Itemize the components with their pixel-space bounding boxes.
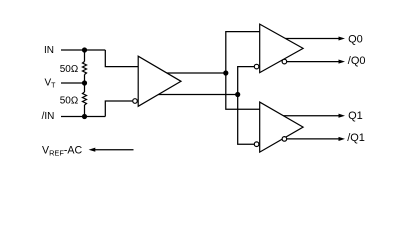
svg-text:50Ω: 50Ω	[60, 64, 79, 75]
arrowhead /Q0	[339, 60, 346, 64]
wire /IN to comparator inverting input	[105, 101, 132, 117]
resistor R2 50ohm zigzag	[83, 92, 87, 105]
wire left rail top segment	[84, 50, 86, 62]
inversion bubble U2 input	[254, 64, 259, 69]
junction dot VT node	[82, 80, 87, 85]
wire Q0 output	[270, 38, 339, 40]
buffer U3 triangle	[260, 102, 303, 152]
wire VT horizontal	[61, 82, 85, 84]
inversion bubble U3 input	[254, 142, 259, 147]
wire rail between R1 and VT	[84, 75, 86, 93]
arrowhead VREF-AC (points left)	[89, 148, 96, 152]
svg-text:/IN: /IN	[42, 111, 55, 122]
junction dot comparator true output	[223, 70, 228, 75]
wire comparator output complement	[150, 94, 238, 96]
arrowhead Q1	[339, 114, 346, 118]
wire rail A to buffer inputs	[226, 32, 261, 110]
inversion bubble U2 output	[282, 59, 287, 64]
wire VREF-AC arrow line	[95, 149, 134, 151]
junction dot /IN node	[82, 114, 87, 119]
junction dot comparator complement output	[235, 92, 240, 97]
wire /IN horizontal	[61, 116, 105, 118]
svg-text:Q1: Q1	[348, 110, 363, 122]
wire /Q0 output	[284, 61, 338, 63]
svg-text:50Ω: 50Ω	[60, 95, 79, 106]
wire IN horizontal	[61, 49, 105, 51]
inversion bubble U3 output	[282, 137, 287, 142]
buffer U2 triangle	[260, 24, 303, 73]
resistor R1 50ohm zigzag	[83, 62, 87, 75]
svg-text:Q0: Q0	[348, 34, 363, 46]
inversion bubble U1 input	[133, 99, 138, 104]
wire /Q1 output	[284, 138, 338, 140]
svg-text:/Q0: /Q0	[348, 55, 366, 67]
wire IN to comparator non-inverting input	[105, 50, 141, 67]
junction dot IN node	[82, 47, 87, 52]
wire Q1 output	[270, 115, 339, 117]
wire comparator output true	[158, 72, 226, 74]
arrowhead Q0	[339, 36, 346, 40]
svg-text:IN: IN	[44, 45, 54, 56]
op-amp U1 comparator triangle	[138, 56, 181, 106]
arrowhead /Q1	[339, 137, 346, 141]
svg-text:/Q1: /Q1	[347, 132, 365, 144]
wire rail between R2 and /IN	[84, 105, 86, 117]
wire rail B to buffer inverting inputs	[238, 67, 255, 145]
